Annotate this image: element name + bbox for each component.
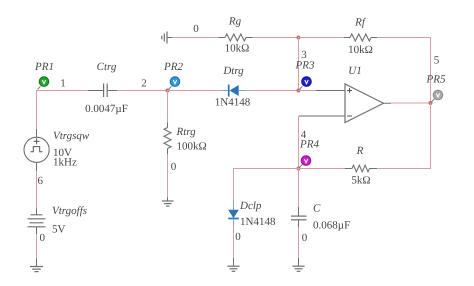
svg-text:10kΩ: 10kΩ [225,43,250,55]
wire node4 down to capacitor C [298,169,300,208]
diode Dtrg 1N4148 [215,65,251,109]
ground GND top-left (rotated, pointing left) [162,32,172,44]
svg-text:10kΩ: 10kΩ [348,44,373,56]
wire Ctrg to node 2 [117,90,168,92]
svg-text:Dclp: Dclp [239,200,262,212]
svg-text:5V: 5V [52,224,66,236]
ground below Dclp [227,258,239,271]
wire node3 junction to Rf [299,37,345,39]
svg-text:0: 0 [193,23,199,35]
wire V1 to V2, node 6 [36,171,38,209]
wire R to right vertical [377,168,431,170]
svg-text:R: R [356,145,364,157]
svg-text:0: 0 [171,161,177,173]
junction node 4 [297,167,301,171]
svg-text:0: 0 [40,232,46,244]
wire node4 left to Dclp corner [234,169,299,203]
ground below Rtrg [162,198,174,207]
svg-text:6: 6 [38,175,44,187]
capacitor C [291,203,350,232]
svg-text:1N4148: 1N4148 [215,97,251,109]
svg-text:Vtrgsqw: Vtrgsqw [53,130,90,142]
wire node2 to Dtrg [168,90,223,92]
wire riser node3 vertical [298,38,300,91]
junction node 2 [166,89,170,93]
probe PR5 [426,74,446,103]
diode Dclp 1N4148 [228,200,276,228]
svg-text:1kHz: 1kHz [53,157,77,169]
wire op-amp output to junction [391,102,431,104]
svg-text:2: 2 [141,78,147,90]
probe PR1 [34,61,54,90]
wire Rtrg to ground [167,154,169,198]
junction node 3 top [297,36,301,40]
svg-text:100kΩ: 100kΩ [177,141,207,153]
resistor Rtrg [164,123,207,155]
svg-text:5kΩ: 5kΩ [351,175,370,187]
wire Rf to top-right corner [377,37,431,39]
capacitor Ctrg [85,61,128,115]
svg-text:1: 1 [60,78,66,90]
svg-text:U1: U1 [348,65,361,77]
junction output node 5 [429,101,433,105]
wire minus corner down to node 4 [298,116,300,169]
wire Dclp to ground [233,226,235,258]
wire node3 to op-amp plus lead [299,90,318,92]
wire node1 corner to Ctrg [37,91,93,96]
svg-text:0.068µF: 0.068µF [313,220,350,232]
svg-text:PR4: PR4 [299,139,319,151]
source V2 Vtrgoffs (battery) [28,205,88,236]
svg-text:PR2: PR2 [163,61,183,73]
wire right vertical output to R row [430,103,432,169]
resistor Rg [219,16,253,55]
ground below C [292,258,304,271]
junction node 3 main [297,89,301,93]
svg-text:PR5: PR5 [426,74,446,86]
svg-text:Rf: Rf [354,17,367,29]
svg-text:Rtrg: Rtrg [176,126,197,138]
svg-text:0: 0 [235,231,241,243]
svg-text:Dtrg: Dtrg [222,65,244,77]
wire right vertical down to output junction [430,38,432,104]
wire Rg to node 3 junction [253,37,299,39]
svg-text:1N4148: 1N4148 [240,216,276,228]
svg-text:C: C [313,203,321,215]
svg-text:PR3: PR3 [295,60,315,72]
wire V2 to ground [36,234,38,259]
svg-text:PR1: PR1 [34,61,54,73]
resistor R [345,145,377,187]
wire node4 right to R [299,168,346,170]
svg-text:Rg: Rg [228,16,242,28]
probe PR3 [295,60,315,90]
svg-text:0: 0 [302,232,308,244]
svg-text:5: 5 [434,55,440,67]
svg-text:Ctrg: Ctrg [97,61,117,73]
wire top ground to Rg [172,37,219,39]
wire node2 down to Rtrg [167,91,169,124]
ground bottom-left [30,259,43,272]
svg-text:Vtrgoffs: Vtrgoffs [52,205,87,217]
resistor Rf [344,17,377,57]
probe PR2 [163,61,183,90]
wire node1 down to source V1 [36,91,38,130]
source V1 Vtrgsqw (square wave) [24,129,90,171]
svg-text:0.0047µF: 0.0047µF [85,103,128,115]
wire C to ground [298,227,300,258]
probe PR4 [299,139,319,168]
op-amp U1 [299,65,391,123]
wire Dtrg to node 3 [246,90,298,92]
